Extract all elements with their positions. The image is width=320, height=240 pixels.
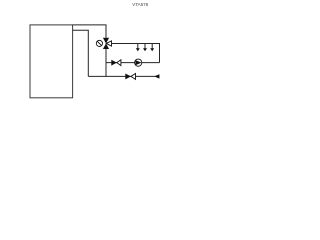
svg-text:VTA578: VTA578	[132, 2, 148, 7]
